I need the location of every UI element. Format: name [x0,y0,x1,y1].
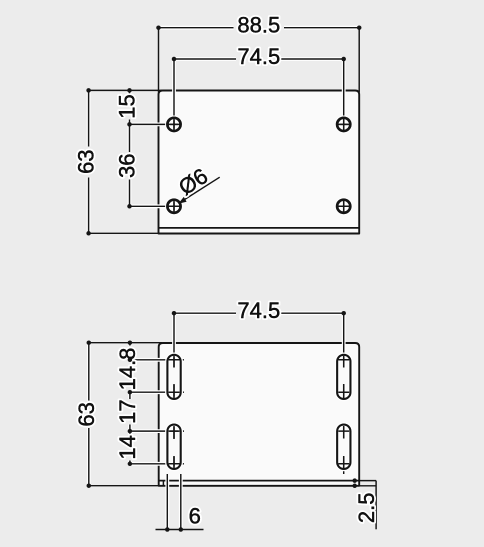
extension 63 bottom (top view) [89,232,159,234]
dim line 2.5 [375,481,377,530]
svg-text:15: 15 [114,94,139,118]
TOP VIEW plate [159,91,360,234]
extension 63 bottom (bottom view) [89,485,159,487]
BOTTOM VIEW fold line [159,480,360,482]
hole TL [167,118,180,131]
extension 88.5 right [358,28,360,92]
holes (white halo + black stroke) [167,118,350,213]
svg-text:36: 36 [115,154,140,178]
slot R2 inner center marks [338,426,349,469]
svg-text:88.5: 88.5 [237,13,280,38]
slot R2 [337,425,350,469]
crossing dimension lines: white casing then black [89,28,360,530]
svg-text:63: 63 [74,402,99,426]
svg-text:14: 14 [115,435,140,459]
TOP VIEW fold line [159,227,360,229]
svg-text:6: 6 [189,503,201,528]
extension 63 top (bottom view) [89,342,162,344]
BOTTOM VIEW fold left tick [162,481,164,486]
dimension end dots [86,25,361,531]
svg-text:14.8: 14.8 [115,348,140,391]
BOTTOM VIEW plate [159,343,360,486]
hole BR inner cross [338,201,350,213]
hole TL inner cross [168,119,180,131]
slot R1 inner center marks [338,356,349,399]
bottom edge extension right [359,485,376,487]
hole TR [337,118,350,131]
hole BL [167,200,180,213]
svg-text:74.5: 74.5 [237,44,280,69]
merging dimension / extension lines (plain) [89,28,377,530]
slot R1 [337,355,350,399]
leader line for diameter callout [180,177,220,202]
slot L1 inner center marks [169,356,180,399]
hole TR inner cross [338,119,350,131]
dim line 6 [156,529,204,531]
slot L2 [167,425,180,469]
hole BR [337,200,350,213]
svg-text:63: 63 [74,149,99,173]
hole BL inner cross [168,201,180,213]
svg-text:2.5: 2.5 [354,493,379,524]
svg-text:74.5: 74.5 [237,298,280,323]
slot L1 [167,355,180,399]
fold line extension right [359,480,376,482]
slot L2 inner center marks [169,426,180,469]
leader arrowhead [178,197,186,204]
extension 63 top (top view) [89,89,162,91]
slots (white halo + black stroke) [167,355,350,469]
svg-text:17: 17 [115,399,140,423]
extension 88.5 left [158,28,160,92]
